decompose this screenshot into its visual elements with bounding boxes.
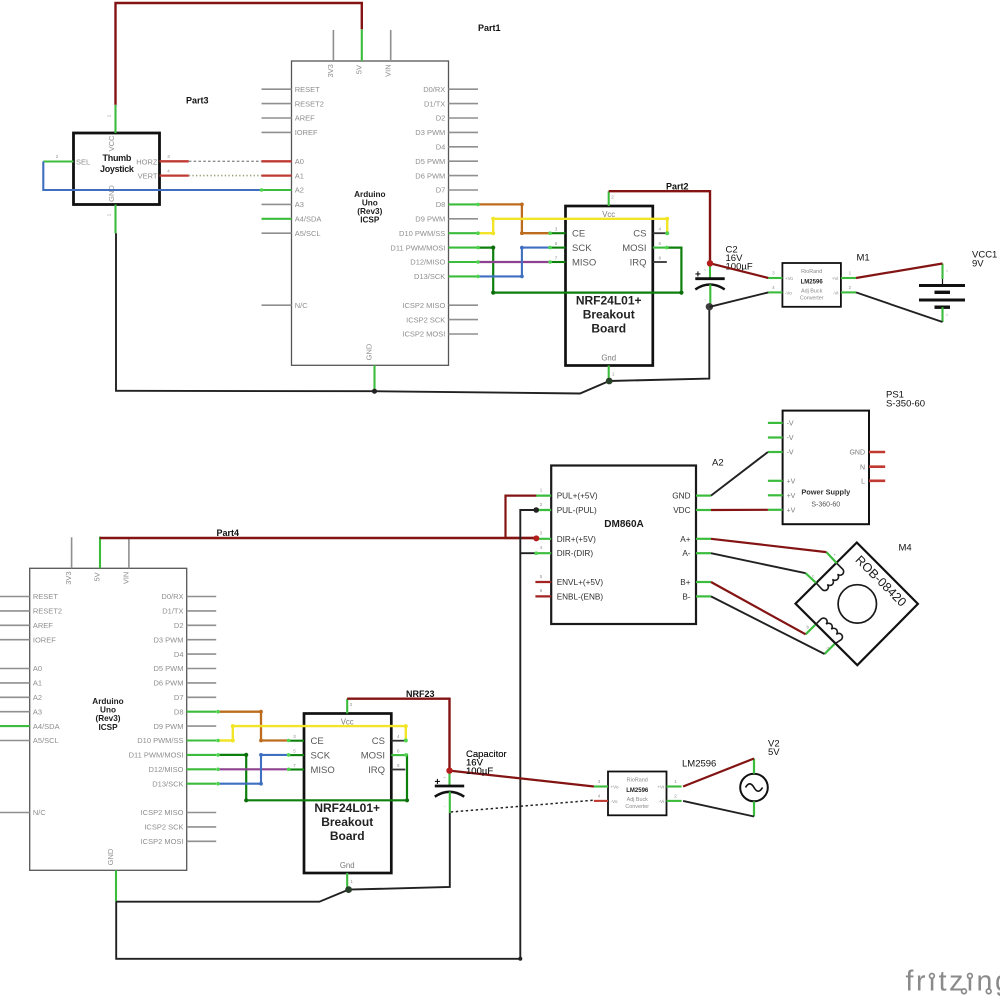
Part1 pin A2 stub: [262, 189, 292, 191]
svg-text:D13/SCK: D13/SCK: [414, 272, 445, 281]
svg-text:~: ~: [443, 775, 446, 780]
svg-text:A3: A3: [295, 200, 304, 209]
Part4 pin D1/TX: [187, 610, 217, 612]
svg-text:LM2596: LM2596: [626, 788, 649, 794]
svg-text:A5/SCL: A5/SCL: [33, 736, 59, 745]
NRF23 pin 8 IRQ: [391, 769, 405, 771]
DM860A pin A+: [696, 538, 711, 540]
Part1 pin D10 PWM/SS: [449, 232, 479, 234]
Part1 pin D0/RX: [449, 88, 479, 90]
svg-text:+Vo: +Vo: [611, 785, 619, 790]
Part1 pin D2: [449, 117, 479, 119]
Part4 pin D3 PWM: [187, 639, 217, 641]
V2 sine wave: [746, 784, 763, 791]
svg-text:A4/SDA: A4/SDA: [295, 215, 322, 224]
wire LM2596.-Vi to V2- (black): [683, 801, 754, 817]
svg-text:Power Supply: Power Supply: [801, 488, 851, 497]
Part1 pin A5/SCL: [262, 232, 292, 234]
Part4 pin D12/MISO: [187, 768, 217, 770]
svg-text:D10 PWM/SS: D10 PWM/SS: [399, 229, 445, 238]
svg-text:RESET2: RESET2: [33, 607, 62, 616]
wire Part4.5V to DM860A.DIR+ (dark red, Part4 net): [100, 537, 537, 539]
svg-text:ICSP: ICSP: [98, 723, 118, 732]
Part1 pin A0 stub (red): [262, 160, 292, 162]
Part4 pin D9 PWM: [187, 725, 217, 727]
LM2596-2 pin 1 +Vi: [667, 785, 682, 787]
PS1 pin GND: [869, 451, 885, 454]
svg-text:A5/SCL: A5/SCL: [295, 229, 321, 238]
svg-text:D8: D8: [436, 200, 446, 209]
svg-text:IRQ: IRQ: [630, 257, 647, 268]
svg-text:D13/SCK: D13/SCK: [152, 779, 183, 788]
svg-text:Thumb: Thumb: [103, 153, 132, 163]
ac source V2 5V: [740, 759, 768, 817]
svg-text:Adj Buck: Adj Buck: [801, 288, 823, 294]
Part2 pin 2 Vcc: [608, 191, 610, 206]
stepper motor M4 ROB-08420: [796, 543, 918, 666]
svg-text:SCK: SCK: [311, 750, 331, 761]
svg-text:+: +: [435, 777, 441, 788]
svg-text:ENBL-(ENB): ENBL-(ENB): [557, 592, 604, 601]
svg-text:MOSI: MOSI: [361, 750, 385, 761]
arduino Part4: [0, 537, 216, 902]
ratsnest Part3.VERT to Part1.A1 (dotted): [189, 175, 262, 177]
Part3 body outline: [74, 133, 160, 205]
svg-text:D8: D8: [174, 707, 184, 716]
Part1 pin D12/MISO: [449, 261, 479, 263]
wire M1.+Vi to VCC1+ (dark red): [856, 264, 943, 279]
breakout board Part2 (NRF24L01+): [550, 191, 667, 381]
Part4 pin D2: [187, 624, 217, 626]
Part1 pin A1 stub (red): [262, 174, 292, 176]
wire Part3.SEL to Part1.A2 (blue): [43, 162, 261, 191]
Part2 pin 4 CS: [653, 232, 667, 234]
wire Part2.Vcc to C2+ node (dark red): [609, 191, 710, 263]
Part2 pin 3 CE: [550, 232, 565, 234]
svg-text:+Vo: +Vo: [785, 276, 793, 281]
svg-text:CE: CE: [311, 736, 324, 747]
DM860A body outline: [551, 466, 696, 625]
svg-text:-Vi: -Vi: [658, 799, 664, 804]
svg-text:3V3: 3V3: [64, 571, 73, 584]
Part2 pin 7 MISO: [550, 261, 565, 263]
Part4 pin A0: [0, 668, 30, 670]
C2 positive pin stub: [709, 263, 711, 278]
M4 pin B+: [806, 625, 816, 634]
svg-text:VIN: VIN: [122, 572, 131, 585]
svg-text:D6 PWM: D6 PWM: [415, 171, 445, 180]
svg-text:+V: +V: [787, 478, 796, 485]
Part4 pin GND: [115, 870, 117, 901]
DM860A pin DIR+(+5V): [535, 538, 551, 540]
Part1 pin A4/SDA: [262, 218, 292, 220]
Part4 pin RESET: [0, 596, 30, 598]
PS1 pin +V: [768, 509, 783, 511]
Part4 pin A1: [0, 682, 30, 684]
M4 pin A-: [806, 573, 816, 583]
capacitor C2 16V 100uF: [695, 263, 725, 307]
svg-text:DIR+(+5V): DIR+(+5V): [557, 535, 596, 544]
wire Part1.D12 to Part2.MISO (purple): [478, 261, 550, 263]
svg-text:D9 PWM: D9 PWM: [415, 215, 445, 224]
Part3 pin 4 VERT: [160, 174, 189, 176]
svg-text:AREF: AREF: [33, 621, 53, 630]
svg-text:A+: A+: [680, 535, 690, 544]
wire Part4.D13 to NRF23.SCK (blue): [218, 755, 289, 784]
svg-text:A2: A2: [33, 693, 42, 702]
Part4 pin A2: [0, 696, 30, 698]
svg-text:DM860A: DM860A: [604, 519, 643, 530]
Part4 pin ICSP2 MISO: [187, 812, 217, 814]
svg-text:D9 PWM: D9 PWM: [154, 722, 184, 731]
svg-text:D1/TX: D1/TX: [162, 607, 183, 616]
Part2 pin 6 MOSI: [653, 247, 667, 249]
svg-text:VCC: VCC: [107, 135, 116, 151]
Part1 pin ICSP2 MOSI: [449, 333, 479, 335]
junction C2 negative node: [706, 303, 713, 310]
DM860A pin GND: [696, 495, 711, 497]
wire LM2596.+Vi to V2+ (dark red): [683, 759, 754, 787]
wire Part1.D8 to Part2.CE (orange): [478, 204, 550, 233]
battery VCC1 9V: [919, 264, 965, 323]
DM860A pin B+: [696, 581, 711, 583]
svg-text:HORZ: HORZ: [136, 157, 158, 166]
LM2596-2 pin 4 -Vo: [594, 800, 608, 802]
svg-text:D1/TX: D1/TX: [424, 99, 445, 108]
Part1 pin D6 PWM: [449, 175, 479, 177]
Part1 pin D5 PWM: [449, 160, 479, 162]
ratsnest Part3.HORZ to Part1.A0 (dashed): [189, 160, 262, 162]
Part4 pin D6 PWM: [187, 682, 217, 684]
svg-text:ICSP2 MISO: ICSP2 MISO: [141, 808, 184, 817]
svg-text:D0/RX: D0/RX: [423, 85, 445, 94]
Part1 pin RESET: [262, 88, 292, 90]
svg-text:CE: CE: [572, 229, 585, 240]
Part4 pin A4/SDA: [0, 725, 30, 727]
svg-text:D7: D7: [436, 186, 446, 195]
svg-text:3V3: 3V3: [326, 64, 335, 77]
svg-text:MOSI: MOSI: [622, 243, 646, 254]
svg-text:+: +: [834, 553, 837, 558]
svg-text:-V: -V: [787, 435, 794, 442]
Part2 pin 8 IRQ: [653, 261, 667, 263]
Part2 body outline: [566, 206, 653, 366]
svg-text:NRF24L01+: NRF24L01+: [314, 801, 380, 815]
svg-text:A1: A1: [33, 679, 42, 688]
svg-text:Converter: Converter: [800, 296, 824, 302]
wire DIR- branch (black): [520, 552, 536, 554]
DM860A pin ENBL-(ENB): [535, 595, 551, 597]
Part1 pin 3V3: [332, 30, 334, 61]
svg-text:D5 PWM: D5 PWM: [154, 664, 184, 673]
PS1 pin +V: [768, 480, 783, 482]
wire Part3.VCC to Part1.5V (dark red, over the top): [116, 3, 362, 105]
M1 pin 3 +Vo: [768, 277, 782, 279]
Part4 pin A3: [0, 711, 30, 713]
Part4 pin D0/RX: [187, 596, 217, 598]
svg-text:Part1: Part1: [478, 23, 501, 33]
svg-text:RESET: RESET: [295, 85, 320, 94]
Part1 pin D8: [449, 203, 479, 205]
M4 rotor circle: [838, 585, 876, 623]
Part4 pin D10 PWM/SS: [187, 739, 217, 741]
Part4 pin A5/SCL: [0, 740, 30, 742]
NRF23 pin 5 SCK: [289, 754, 304, 756]
M4 body outline (rotated square): [796, 543, 918, 666]
svg-text:IOREF: IOREF: [33, 635, 56, 644]
Part1 pin D7: [449, 189, 479, 191]
svg-text:M4: M4: [899, 543, 912, 554]
PS1 pin -V: [768, 451, 783, 453]
svg-text:N/C: N/C: [33, 808, 47, 817]
svg-text:Vcc: Vcc: [602, 210, 615, 219]
svg-text:D4: D4: [174, 650, 184, 659]
wire C3+ node to LM2596.+Vo (dark red): [450, 771, 594, 787]
wire DM860A.B- to M4.B- (black): [711, 596, 825, 654]
svg-text:ICSP2 SCK: ICSP2 SCK: [144, 823, 183, 832]
Part2 pin 5 SCK: [550, 247, 565, 249]
wire Part1.D13 to Part2.SCK (blue): [478, 248, 550, 277]
Part4 pin D7: [187, 696, 217, 698]
wire C2+ node to M1.+Vo (dark red): [710, 263, 768, 278]
NRF23 pin 7 MISO: [289, 768, 304, 770]
svg-text:SCK: SCK: [572, 243, 592, 254]
NRF23 pin 3 CE: [289, 740, 304, 742]
PS1 pin N: [869, 465, 885, 468]
wire M1.-Vi to VCC1- (black): [856, 292, 943, 322]
svg-text:Adj Buck: Adj Buck: [627, 797, 649, 803]
svg-text:Converter: Converter: [625, 804, 649, 810]
Part1 pin N/C: [262, 304, 292, 306]
ground wire Part3.GND down and across to Part1.GND, Part2.Gnd, C2- (black): [116, 233, 709, 393]
M4 pin B-: [825, 644, 835, 654]
svg-text:D11 PWM/MOSI: D11 PWM/MOSI: [390, 243, 445, 252]
stepper driver DM860A: [535, 466, 711, 625]
wire Part1.D11 to Part2.MOSI (dark green): [478, 248, 681, 293]
LM2596-2 pin 3 +Vo: [594, 785, 608, 787]
V2 positive terminal stub: [753, 759, 755, 774]
svg-text:~: ~: [946, 269, 949, 274]
svg-text:Gnd: Gnd: [340, 861, 355, 870]
svg-text:Part4: Part4: [217, 528, 240, 538]
svg-text:RESET2: RESET2: [295, 99, 324, 108]
svg-text:+: +: [695, 270, 701, 281]
svg-text:N: N: [860, 464, 865, 471]
svg-text:-Vo: -Vo: [611, 799, 618, 804]
svg-text:S-360-60: S-360-60: [811, 502, 840, 509]
Part3 pin 1 VCC: [114, 105, 116, 133]
svg-text:+Vi: +Vi: [832, 276, 839, 281]
svg-text:MISO: MISO: [572, 257, 596, 268]
svg-text:MISO: MISO: [311, 765, 335, 776]
svg-text:D3 PWM: D3 PWM: [154, 635, 184, 644]
buck converter module M1: [768, 263, 856, 307]
svg-text:D10 PWM/SS: D10 PWM/SS: [137, 736, 183, 745]
VCC1 plate long top: [919, 284, 965, 287]
Part4 pin IOREF: [0, 639, 30, 641]
wire Part1.D10 to Part2.CS (yellow): [478, 219, 667, 233]
C2 negative pin stub: [709, 284, 711, 307]
svg-text:Board: Board: [591, 321, 626, 335]
VCC1 negative terminal stub: [941, 307, 943, 322]
wire Part4.D10 to NRF23.CS (yellow): [218, 726, 406, 740]
svg-text:CS: CS: [633, 229, 646, 240]
wire Part4.D12 to NRF23.MISO (purple): [218, 768, 289, 770]
svg-text:ICSP2 MOSI: ICSP2 MOSI: [141, 837, 184, 846]
svg-text:5V: 5V: [93, 572, 102, 581]
C2 plus plate: [695, 277, 724, 280]
svg-text:Gnd: Gnd: [601, 354, 616, 363]
Part4 pin RESET2: [0, 610, 30, 612]
junction node C2+ (red): [707, 260, 713, 266]
svg-text:D12/MISO: D12/MISO: [148, 765, 183, 774]
DM860A pin A-: [696, 552, 711, 554]
svg-text:D2: D2: [436, 114, 446, 123]
power supply PS1 S-350-60: [768, 411, 885, 525]
C3 minus plate (curved, arch up): [435, 792, 464, 797]
NRF23 body outline: [304, 714, 391, 874]
svg-text:GND: GND: [107, 185, 116, 202]
joystick Part3: [43, 105, 189, 233]
svg-text:A2: A2: [295, 186, 304, 195]
Part1 pin D9 PWM: [449, 218, 479, 220]
svg-text:GND: GND: [672, 492, 690, 501]
svg-text:D3 PWM: D3 PWM: [415, 128, 445, 137]
svg-text:D4: D4: [436, 143, 446, 152]
svg-text:DIR-(DIR): DIR-(DIR): [557, 549, 594, 558]
svg-text:B+: B+: [680, 578, 690, 587]
svg-text:+V: +V: [787, 507, 796, 514]
svg-text:Breakout: Breakout: [321, 815, 373, 829]
Part1 pin IOREF: [262, 131, 292, 133]
svg-text:AREF: AREF: [295, 114, 315, 123]
DM860A pin B-: [696, 595, 711, 597]
svg-text:LM2596: LM2596: [682, 759, 716, 770]
junction Part2.Gnd: [606, 378, 613, 385]
Part4 pin D4: [187, 653, 217, 655]
M1 pin 1 +Vi: [841, 277, 856, 279]
svg-text:N/C: N/C: [295, 301, 309, 310]
Part1 pin D3 PWM: [449, 131, 479, 133]
C3 negative pin stub: [449, 792, 451, 813]
svg-text:~: ~: [704, 268, 707, 273]
wire Part4 GND net: PUL-/DIR- down to bottom rail (black): [116, 510, 536, 959]
Part4 pin D8: [187, 711, 217, 713]
Part4 pin ICSP2 SCK: [187, 826, 217, 828]
svg-text:ICSP: ICSP: [360, 216, 380, 225]
svg-text:-Vo: -Vo: [785, 291, 792, 296]
Part1 pin AREF: [262, 117, 292, 119]
svg-text:ICSP2 MOSI: ICSP2 MOSI: [402, 330, 445, 339]
LM2596-2 pin 2 -Vi: [667, 800, 682, 802]
C3 plus plate: [435, 785, 464, 788]
svg-text:A-: A-: [682, 549, 690, 558]
svg-text:D11 PWM/MOSI: D11 PWM/MOSI: [129, 751, 184, 760]
breakout board NRF23 (NRF24L01+): [289, 699, 406, 889]
svg-text:Breakout: Breakout: [583, 307, 635, 321]
VCC1 plate short bottom: [935, 306, 951, 309]
svg-text:GND: GND: [849, 450, 865, 457]
Part1 pin ICSP2 MISO: [449, 304, 479, 306]
svg-text:D5 PWM: D5 PWM: [415, 157, 445, 166]
wire DM860A.GND to PS1.-V (black): [711, 452, 768, 496]
PS1 pin +V: [768, 494, 783, 496]
svg-text:Part3: Part3: [186, 96, 209, 106]
Part4 pin AREF: [0, 624, 30, 626]
Part4 pin ICSP2 MOSI: [187, 840, 217, 842]
Part4 pin D11 PWM/MOSI: [187, 754, 217, 756]
M1 body outline: [782, 263, 841, 307]
svg-text:ENVL+(+5V): ENVL+(+5V): [557, 578, 604, 587]
DM860A pin ENVL+(+5V): [535, 581, 551, 583]
NRF23 pin 2 Vcc: [346, 699, 348, 714]
NRF23 pin 6 MOSI: [391, 754, 405, 756]
Part3 pin 3 HORZ: [160, 160, 189, 162]
M1 pin 2 -Vi: [841, 291, 856, 293]
Part1 pin RESET2: [262, 103, 292, 105]
svg-text:SEL: SEL: [76, 157, 90, 166]
Part1 pin VIN: [390, 30, 392, 61]
C2 minus plate (curved, arch up): [695, 285, 724, 290]
svg-text:-V: -V: [787, 421, 794, 428]
svg-text:VIN: VIN: [383, 64, 392, 77]
svg-text:Board: Board: [330, 829, 365, 843]
svg-text:D12/MISO: D12/MISO: [410, 258, 445, 267]
svg-text:9V: 9V: [972, 259, 984, 270]
svg-text:-V: -V: [787, 450, 794, 457]
svg-text:B-: B-: [682, 592, 690, 601]
svg-text:D0/RX: D0/RX: [161, 592, 183, 601]
M4 pin A+: [826, 552, 836, 563]
Part4 pin 5V: [99, 537, 101, 569]
svg-text:NRF24L01+: NRF24L01+: [576, 294, 642, 308]
svg-text:5V: 5V: [768, 747, 780, 758]
wire DM860A.A- to M4.A- (black): [711, 553, 806, 573]
junction Part1.GND: [372, 389, 377, 394]
svg-text:ICSP2 MISO: ICSP2 MISO: [402, 301, 445, 310]
svg-text:+V: +V: [787, 493, 796, 500]
svg-text:A1: A1: [295, 171, 304, 180]
junction DIR+ node (red): [533, 535, 539, 541]
svg-text:VERT: VERT: [138, 172, 158, 181]
wire DM860A.A+ to M4.A+ (dark red): [711, 539, 826, 552]
Part3 pin 2 SEL: [43, 160, 73, 162]
arduino Part1: [262, 29, 479, 391]
NRF23 pin 1 Gnd: [346, 873, 348, 889]
svg-text:RESET: RESET: [33, 592, 58, 601]
wire Part4.D11 to NRF23.MOSI (dark green): [218, 755, 407, 800]
svg-text:ICSP2 SCK: ICSP2 SCK: [406, 315, 445, 324]
Part1 pin ICSP2 SCK: [449, 319, 479, 321]
DM860A pin DIR-(DIR): [535, 552, 551, 554]
junction node C3+ (red): [446, 767, 452, 773]
Part4 pin D5 PWM: [187, 668, 217, 670]
DM860A pin VDC: [696, 509, 711, 511]
PS1 pin -V: [768, 436, 783, 438]
C3 positive pin stub: [448, 771, 450, 786]
svg-text:100µF: 100µF: [466, 766, 493, 777]
Part1 pin D13/SCK: [449, 275, 479, 277]
Part1 pin A3: [262, 203, 292, 205]
svg-text:RioRand: RioRand: [801, 269, 822, 275]
capacitor C3 (Capacitor 16V 100uF): [435, 771, 465, 813]
svg-text:+Vi: +Vi: [657, 785, 664, 790]
svg-text:S-350-60: S-350-60: [886, 399, 925, 410]
Part4 pin D13/SCK: [187, 783, 217, 785]
svg-text:LM2596: LM2596: [801, 279, 824, 285]
Part3 pin 1 GND: [114, 205, 116, 234]
wire Part4.D8 to NRF23.CE (orange): [218, 712, 289, 741]
